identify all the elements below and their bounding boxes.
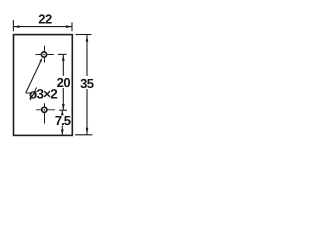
dimension 7.5 arrow down <box>61 129 64 135</box>
svg-text:7.5: 7.5 <box>55 113 71 128</box>
svg-text:35: 35 <box>80 76 94 91</box>
hole H1 vertical centerline <box>44 46 46 63</box>
dimension 20 arrow up <box>62 55 65 61</box>
hole H2 vertical centerline <box>44 103 46 123</box>
dimension 7.5 line lower segment <box>61 126 63 135</box>
dimension 20 extension line top <box>58 53 67 55</box>
dimension 22 arrow right <box>66 25 72 28</box>
dimension 35 arrow down <box>86 128 89 135</box>
hole H1 horizontal centerline <box>36 54 55 56</box>
dimension 7.5 line upper stub <box>61 111 63 114</box>
dimension 22 arrow left <box>14 25 20 28</box>
dimension 20 arrow down <box>62 104 65 110</box>
svg-text:22: 22 <box>38 11 52 26</box>
plate outline <box>14 35 73 136</box>
dimension 20 line upper segment <box>62 55 64 76</box>
hole H2 horizontal centerline <box>36 109 55 111</box>
dimension 7.5 arrow up <box>61 110 64 115</box>
leader line for hole callout <box>26 60 42 93</box>
dimension 22 line <box>14 26 73 28</box>
dimension 35 extension line bottom <box>75 134 92 136</box>
dimension 35 line lower segment <box>86 89 88 134</box>
dimension 22 extension line left <box>12 20 14 31</box>
svg-text:20: 20 <box>57 75 71 90</box>
hole H2 center mark <box>44 109 46 111</box>
hole H1 (top) <box>41 52 46 57</box>
dimension 22 extension line right <box>71 23 73 32</box>
dimension 35 line upper segment <box>86 35 88 76</box>
dimension 20 extension line bottom <box>59 109 67 111</box>
hole H2 (bottom) <box>42 107 47 112</box>
hole H1 center mark <box>43 54 45 56</box>
leader arrowhead <box>39 58 42 63</box>
leader foot <box>26 92 31 94</box>
dimension 20 line lower segment <box>62 88 64 110</box>
dimension 35 arrow up <box>86 35 89 42</box>
dimension 35 extension line top <box>76 34 92 36</box>
diameter symbol slash extension <box>30 87 37 100</box>
